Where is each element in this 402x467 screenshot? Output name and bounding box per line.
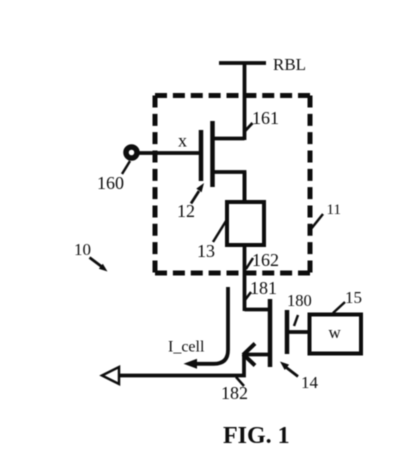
transistor 12 channel bar bbox=[210, 121, 215, 187]
arrow from 10 to box bbox=[90, 258, 102, 267]
transistor 14 gate bar bbox=[285, 310, 290, 354]
transistor 14 gate wire 180 bbox=[287, 330, 310, 334]
component box 13 bbox=[227, 202, 264, 245]
label 160 pointer bbox=[122, 161, 130, 174]
node 181 pointer bbox=[245, 292, 251, 300]
gate label 180 pointer bbox=[294, 315, 298, 326]
transistor 12 source stub bbox=[213, 172, 245, 203]
label 14 arrow bbox=[285, 367, 298, 377]
transistor 14 source wire bbox=[244, 353, 270, 357]
terminal 160 circle bbox=[126, 147, 137, 158]
open arrowhead output bbox=[102, 367, 119, 384]
dashed box 11 bottom edge bbox=[155, 271, 310, 276]
label 11 pointer bbox=[311, 214, 323, 229]
source arrow barb upper bbox=[243, 344, 255, 356]
label 13 pointer bbox=[213, 221, 226, 242]
svg-text:15: 15 bbox=[345, 288, 362, 307]
svg-text:12: 12 bbox=[177, 201, 195, 221]
wire RBL top bar bbox=[219, 61, 266, 65]
svg-text:14: 14 bbox=[301, 373, 319, 392]
svg-text:w: w bbox=[329, 323, 342, 342]
node 162 pointer bbox=[246, 258, 253, 269]
svg-text:FIG. 1: FIG. 1 bbox=[223, 423, 290, 449]
wire source down-left to output bbox=[117, 355, 244, 376]
svg-text:11: 11 bbox=[327, 202, 341, 218]
svg-text:13: 13 bbox=[197, 241, 215, 261]
svg-text:181: 181 bbox=[250, 278, 277, 298]
transistor 14 channel bar bbox=[268, 299, 273, 367]
svg-text:180: 180 bbox=[287, 291, 312, 310]
node 161 pointer bbox=[245, 123, 253, 131]
svg-text:161: 161 bbox=[252, 108, 279, 128]
weight box 15 bbox=[310, 315, 362, 354]
svg-text:160: 160 bbox=[97, 173, 124, 193]
node 182 pointer bbox=[236, 377, 244, 386]
wire drain of transistor 14 bbox=[245, 308, 271, 312]
label 15 pointer bbox=[333, 302, 345, 313]
svg-text:10: 10 bbox=[74, 240, 91, 259]
transistor 12 gate bar bbox=[199, 130, 204, 181]
svg-text:162: 162 bbox=[252, 250, 279, 270]
svg-text:RBL: RBL bbox=[273, 55, 306, 74]
transistor 12 drain stub bbox=[213, 137, 245, 141]
dashed box 11 right edge bbox=[308, 96, 313, 274]
wire from 12 source through box 13 to node 162 bbox=[243, 172, 247, 311]
dashed box 11 left edge bbox=[153, 96, 158, 274]
label 12 arrow bbox=[191, 191, 199, 204]
svg-text:182: 182 bbox=[221, 383, 248, 403]
wire RBL vertical to drain of 12 bbox=[243, 63, 247, 140]
svg-text:x: x bbox=[178, 131, 187, 151]
svg-text:I_cell: I_cell bbox=[168, 339, 205, 356]
source arrow barb lower bbox=[243, 354, 255, 366]
dashed box 11 (cell boundary) top edge bbox=[155, 93, 310, 98]
current arrow I_cell bbox=[194, 287, 228, 364]
wire gate input x bbox=[139, 151, 201, 155]
